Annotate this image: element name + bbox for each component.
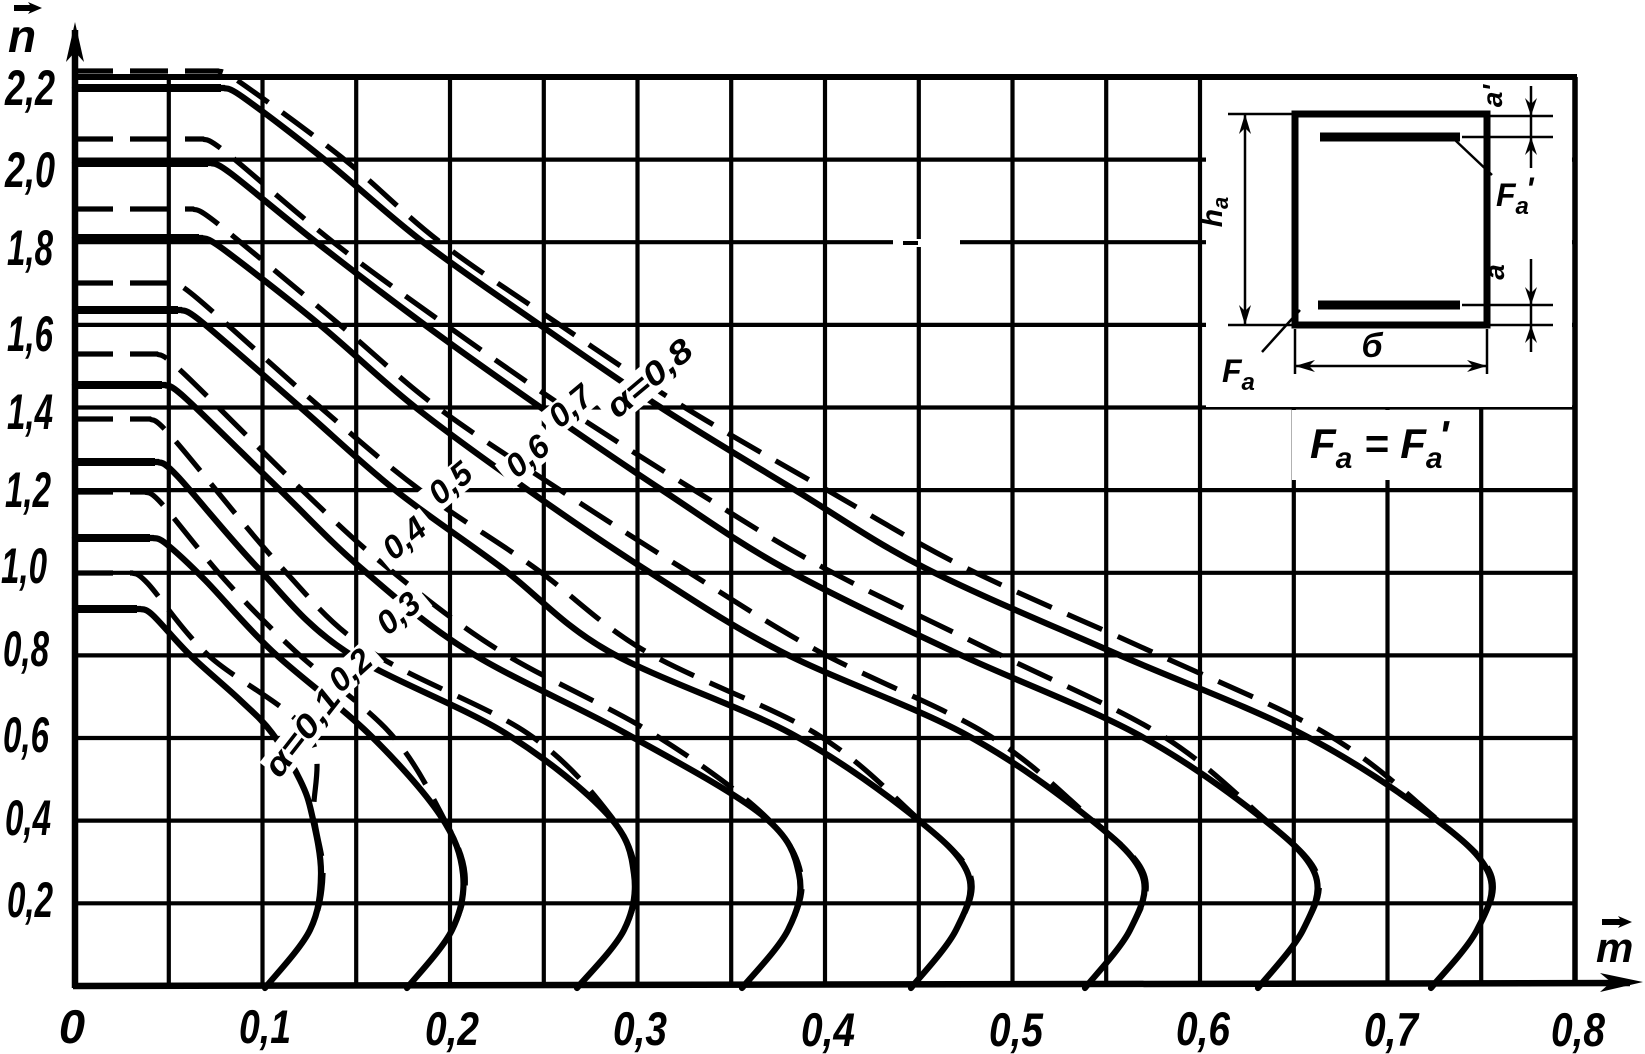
grid vertical lines — [169, 77, 1481, 986]
svg-text:0,4: 0,4 — [5, 790, 51, 846]
dashed curve alpha=0.7 — [75, 139, 1319, 988]
solid curve alpha=0.3 — [75, 462, 635, 988]
x axis — [73, 983, 1630, 986]
svg-text:1,0: 1,0 — [1, 538, 47, 594]
svg-text:1,6: 1,6 — [7, 306, 54, 362]
svg-text:0,4: 0,4 — [801, 1003, 855, 1054]
a' dimension — [1462, 86, 1553, 168]
svg-text:a': a' — [1477, 84, 1508, 108]
top rebar bar Fa' — [1320, 133, 1460, 142]
dashed curve alpha=0.1 — [75, 573, 323, 988]
dashed curve alpha=0.4 — [75, 354, 802, 988]
svg-text:б: б — [1361, 327, 1383, 365]
svg-text:0,8: 0,8 — [1551, 1003, 1606, 1054]
solid curve alpha=0.6 — [75, 238, 1145, 988]
cross-section square — [1295, 114, 1487, 325]
svg-text:n: n — [8, 10, 36, 62]
x axis labels — [59, 1000, 1606, 1054]
dashed curve alpha=0.5 — [75, 283, 972, 988]
svg-text:1,8: 1,8 — [7, 220, 53, 276]
svg-text:0: 0 — [59, 1000, 85, 1053]
scan artifact gap on 1.8 gridline — [893, 239, 960, 247]
y axis title n — [8, 2, 42, 62]
x axis title m — [1596, 916, 1633, 971]
dashed curve alpha=0.8 — [75, 71, 1493, 988]
svg-text:0,1: 0,1 — [239, 1000, 291, 1053]
svg-text:0,3: 0,3 — [613, 1002, 667, 1054]
svg-text:0,2: 0,2 — [425, 1002, 479, 1054]
svg-text:a: a — [1479, 264, 1510, 280]
b dimension — [1295, 329, 1487, 374]
inset formula white patch — [1292, 410, 1464, 480]
svg-text:0,5: 0,5 — [989, 1003, 1044, 1054]
svg-text:0,6: 0,6 — [3, 707, 50, 763]
y axis arrowhead — [66, 22, 84, 62]
dashed curve alpha=0.3 — [75, 419, 637, 988]
svg-text:m: m — [1596, 924, 1633, 971]
x axis arrowhead — [1600, 973, 1643, 992]
svg-text:2,2: 2,2 — [4, 60, 55, 116]
svg-text:0,2: 0,2 — [7, 872, 53, 928]
inset white box — [1206, 80, 1572, 407]
chart frame right border — [1572, 77, 1578, 986]
solid curve alpha=0.2 — [75, 538, 464, 988]
solid curve alpha=0.5 — [75, 310, 971, 988]
bottom rebar bar Fa — [1318, 301, 1460, 310]
y axis — [72, 30, 79, 988]
solid curve alpha=0.4 — [75, 385, 800, 988]
grid horizontal lines — [75, 160, 1575, 904]
h_a dimension — [1228, 114, 1295, 325]
solid curve alpha=0.1 — [75, 609, 321, 988]
a dimension — [1462, 259, 1553, 352]
svg-text:0,8: 0,8 — [3, 621, 49, 677]
chart frame top border — [75, 74, 1577, 80]
dashed curve alpha=0.2 — [75, 492, 465, 988]
dashed curve alpha=0.6 — [75, 209, 1146, 988]
solid curve alpha=0.8 — [75, 88, 1492, 988]
Fa' label with leader — [1455, 140, 1492, 175]
svg-text:0,6: 0,6 — [1176, 1002, 1231, 1054]
label patches (gaps in curves for labels) — [260, 330, 704, 782]
y axis labels — [1, 60, 55, 928]
Fa label with leader — [1262, 310, 1300, 352]
svg-text:1,4: 1,4 — [7, 384, 53, 440]
svg-text:1,2: 1,2 — [5, 462, 51, 518]
svg-text:0,7: 0,7 — [1364, 1003, 1420, 1054]
svg-text:2,0: 2,0 — [4, 142, 55, 198]
solid curve alpha=0.7 — [75, 163, 1318, 988]
